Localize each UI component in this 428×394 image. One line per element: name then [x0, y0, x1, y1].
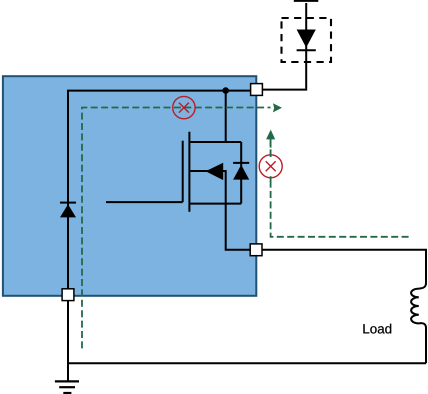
ground [55, 381, 79, 393]
wire: ground pad to ground [67, 301, 69, 382]
wire: top net inside IC from left branch to output pad [68, 91, 251, 205]
arrow: path 2 stem [270, 139, 272, 148]
gate lead [106, 201, 183, 203]
blocked indicator X1 [173, 96, 195, 118]
dashed box around TVS [282, 18, 332, 62]
blocked indicator X2 [259, 155, 282, 178]
transistor arrow (points to channel) [206, 163, 224, 180]
arrow: path 1 head (right) [273, 103, 282, 112]
pad: output pin (right) [250, 244, 262, 256]
body diode triangle [233, 165, 249, 180]
diode D1 (internal clamp diode, left) [60, 195, 76, 289]
body diode branch [240, 142, 242, 204]
channel bar [188, 132, 190, 212]
drain stub [189, 141, 241, 143]
gate bar [182, 141, 184, 202]
pad: VM input pin (top) [251, 84, 263, 96]
wire: green dash crossing ring of X2 [270, 152, 272, 182]
arrow: path 2 head (up) [266, 130, 275, 140]
supply rail bar [294, 0, 319, 2]
wire: output pad to load [262, 250, 426, 283]
source stub [189, 203, 241, 205]
body diode cathode bar [233, 162, 249, 164]
IC block (blue body) [3, 76, 256, 296]
transistor Q1 (power NMOS with body diode) [106, 132, 249, 212]
inductor (Load) [411, 283, 426, 363]
wire: drain lead down to MOSFET [225, 91, 227, 142]
wire: bottom return [68, 362, 426, 364]
label: Load [363, 324, 391, 334]
current path 1 (blocked): green dashed from gate node down and right [82, 108, 271, 349]
body connection with arrow [189, 171, 225, 204]
wire: supply to TVS to input pad [262, 3, 306, 90]
current path 2 (blocked): green dashed from right up through body diode [271, 140, 409, 237]
wire: source lead to right pad [226, 204, 251, 250]
TVS diode D2 (external, in dashed box) [297, 30, 316, 51]
pad: ground pin (bottom) [62, 289, 74, 301]
node: drain junction dot [222, 87, 229, 94]
